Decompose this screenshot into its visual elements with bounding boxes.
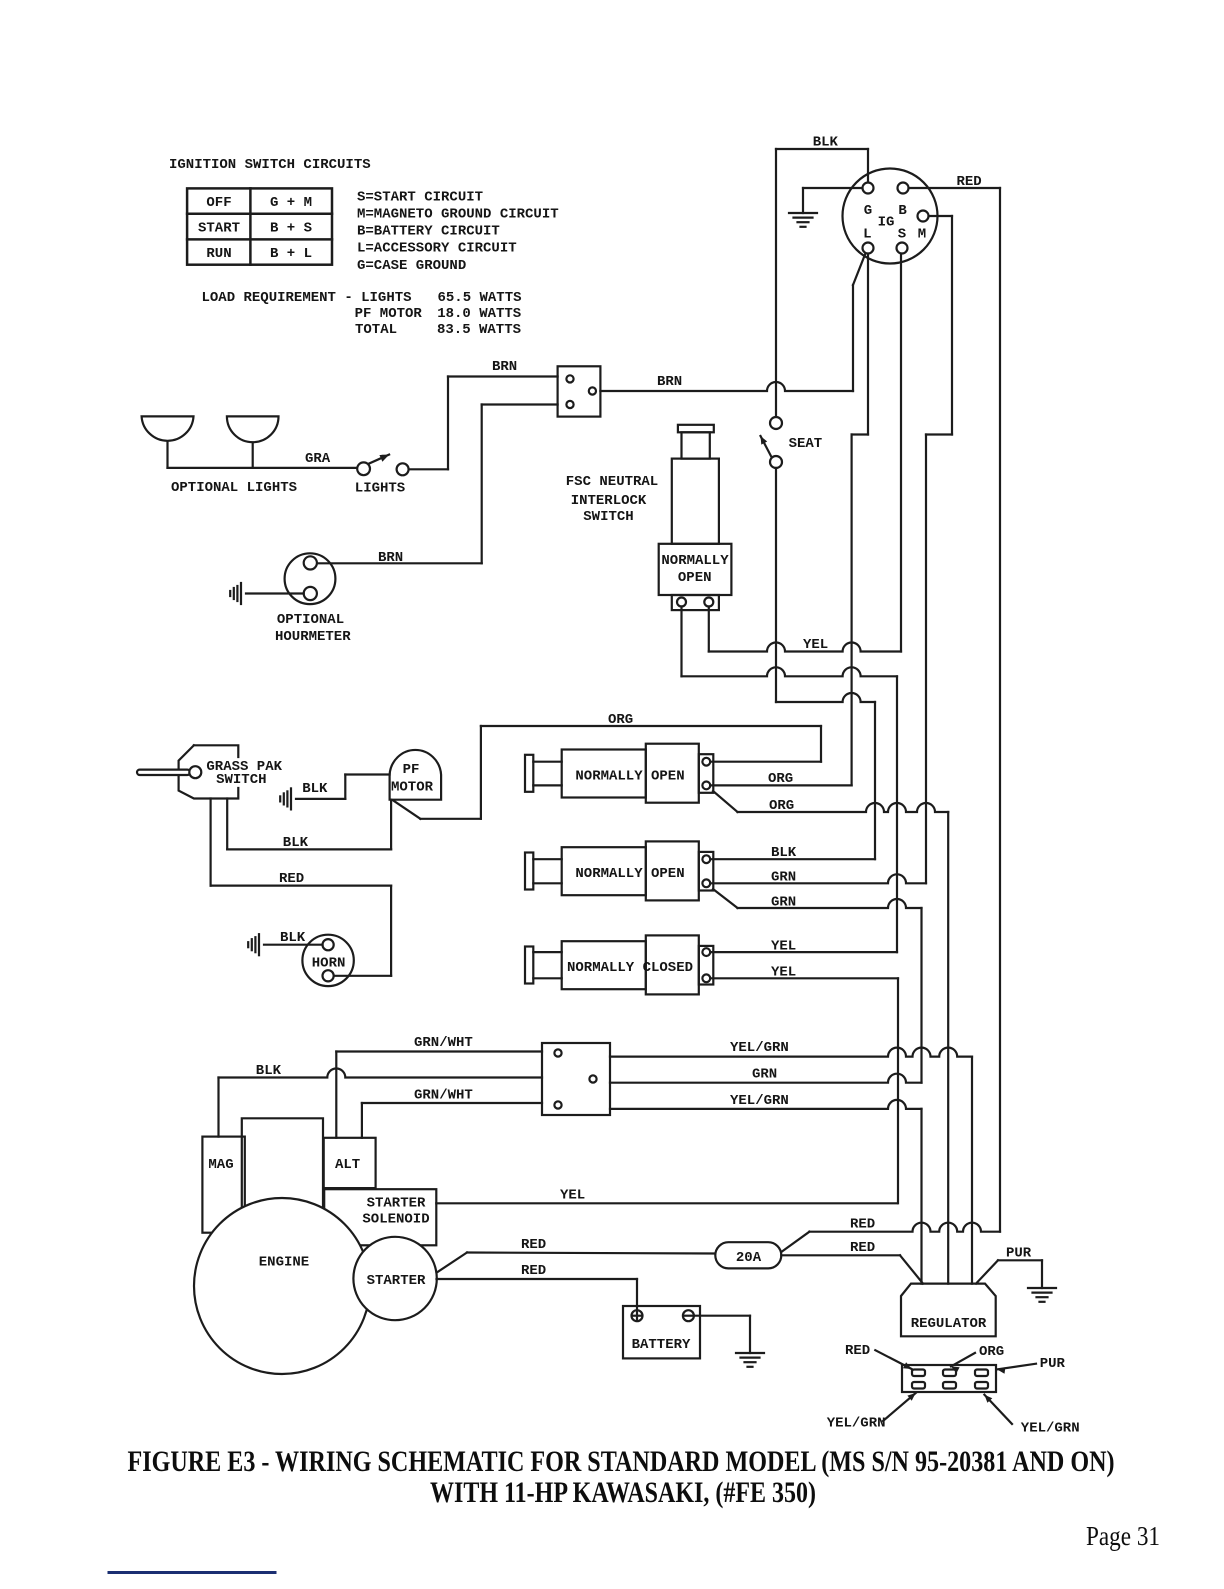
grass pak actuator lever: [137, 770, 190, 775]
switch: GRASS PAK SWITCH body: [194, 745, 238, 757]
svg-text:BRN: BRN: [492, 359, 517, 375]
grass pak pivot pin: [189, 766, 201, 778]
svg-text:RUN: RUN: [206, 246, 231, 262]
svg-text:GRN: GRN: [771, 870, 796, 886]
wire BLK: magneto to connector J2: [217, 1078, 219, 1137]
svg-text:ORG: ORG: [979, 1344, 1004, 1360]
ignition terminal L: [863, 243, 874, 254]
svg-text:PF MOTOR: PF MOTOR: [355, 306, 423, 322]
meter: optional hourmeter: [285, 553, 336, 604]
switch LIGHTS: [368, 455, 389, 464]
svg-text:ORG: ORG: [608, 712, 633, 728]
engine block: [242, 1118, 323, 1215]
svg-text:65.5 WATTS: 65.5 WATTS: [438, 290, 522, 306]
switch SW3 terminal pins: [702, 948, 710, 956]
ground: regulator PUR ground: [1028, 1287, 1056, 1289]
svg-text:RED: RED: [845, 1343, 870, 1359]
svg-text:RED: RED: [957, 174, 982, 190]
ignition terminal B: [898, 183, 909, 194]
switch SW1 terminal pins: [702, 758, 710, 766]
svg-text:PUR: PUR: [1040, 1356, 1066, 1372]
wire GRN/WHT: alternator 2nd to connector J2: [361, 1103, 363, 1138]
fuse 20A: [715, 1242, 781, 1268]
wire BLK: hourmeter to chassis ground: [246, 592, 304, 594]
switch SW3 pin wires: [533, 951, 561, 953]
wire YEL: SW3 top pin to FSC interlock line: [710, 951, 897, 953]
ignition terminal G: [863, 183, 874, 194]
svg-text:YEL: YEL: [803, 637, 828, 653]
svg-text:MOTOR: MOTOR: [391, 780, 434, 796]
svg-text:FIGURE E3 - WIRING SCHEMATIC F: FIGURE E3 - WIRING SCHEMATIC FOR STANDAR…: [128, 1445, 1115, 1478]
starter solenoid box: [324, 1189, 436, 1245]
wire YEL: SW3 lower pin to starter solenoid line: [710, 977, 898, 979]
wire RED: B terminal down right side to fuse: [909, 187, 1001, 189]
svg-text:SOLENOID: SOLENOID: [362, 1211, 429, 1227]
battery: [623, 1306, 700, 1358]
wire: connector to hourmeter: [482, 403, 558, 405]
wire: battery - to ground: [694, 1315, 750, 1317]
decorative blue rule: [109, 1571, 275, 1574]
wire RED: starter to fuse: [437, 1253, 467, 1273]
wire GRN: J2 to SW2 line: [610, 1074, 922, 1083]
wire: M terminal jog down: [929, 215, 953, 217]
wire BRN: lights switch up to connector: [409, 468, 448, 470]
wire BLK: horn to chassis ground: [264, 944, 323, 946]
wire YEL: FSC right pin to ignition S: [708, 607, 710, 652]
wire ORG: SW1 lower pin to L accessory line: [710, 784, 851, 786]
svg-text:BLK: BLK: [771, 845, 797, 861]
svg-text:YEL/GRN: YEL/GRN: [1021, 1421, 1080, 1437]
wire BLK: PF motor to chassis ground: [345, 773, 389, 775]
svg-text:INTERLOCK: INTERLOCK: [571, 493, 647, 509]
horn body: [302, 935, 353, 986]
svg-text:STARTER: STARTER: [367, 1195, 426, 1211]
battery - terminal: [683, 1310, 694, 1321]
ground: battery ground: [736, 1352, 764, 1354]
svg-text:G=CASE GROUND: G=CASE GROUND: [357, 258, 466, 274]
svg-text:GRN/WHT: GRN/WHT: [414, 1088, 473, 1104]
svg-text:IG: IG: [878, 215, 895, 231]
svg-text:M=MAGNETO GROUND CIRCUIT: M=MAGNETO GROUND CIRCUIT: [357, 207, 559, 223]
wire GRN/WHT: alternator to connector J2: [335, 1052, 337, 1138]
svg-text:BRN: BRN: [657, 374, 682, 390]
battery + terminal: [632, 1310, 643, 1321]
switch: FSC neutral interlock (plunger): [678, 425, 714, 433]
ignition table box: [187, 188, 332, 264]
svg-text:SEAT: SEAT: [789, 436, 823, 452]
svg-text:YEL/GRN: YEL/GRN: [730, 1093, 789, 1109]
svg-text:RED: RED: [279, 871, 304, 887]
ground: PF motor chassis ground: [290, 788, 292, 809]
svg-text:LIGHTS: LIGHTS: [355, 481, 405, 497]
ignition terminal M: [918, 211, 929, 222]
svg-text:YEL: YEL: [771, 939, 796, 955]
svg-text:SWITCH: SWITCH: [216, 772, 266, 788]
svg-text:GRN: GRN: [771, 895, 796, 911]
lamp: optional light 1: [142, 416, 194, 440]
wire BLK: grass pak to PF motor: [226, 799, 228, 850]
motor: PF MOTOR: [390, 750, 442, 800]
ground: horn chassis ground: [258, 934, 260, 955]
switch SW1 plug connector: [525, 755, 533, 792]
svg-text:BLK: BLK: [302, 781, 328, 797]
wire YEL: starter solenoid trigger: [436, 1202, 897, 1204]
svg-text:RED: RED: [521, 1237, 546, 1253]
wire BLK: ignition G terminal to seat-switch drop: [776, 148, 868, 150]
svg-text:PF: PF: [403, 762, 420, 778]
lamp: optional light 2: [227, 416, 279, 442]
regulator: [901, 1284, 996, 1337]
alternator ALT: [324, 1138, 376, 1188]
wire RED: grass pak to horn: [210, 799, 212, 886]
wire ORG: PF motor to switch SW1 top pin: [393, 800, 421, 819]
engine circle: [194, 1198, 370, 1374]
svg-text:BLK: BLK: [283, 835, 309, 851]
switch SW3 body: [562, 941, 646, 989]
op: ignition switch body IG: [843, 169, 938, 264]
wire GRN: SW2 to connector/regulator line: [713, 889, 738, 908]
svg-text:BLK: BLK: [280, 930, 306, 946]
svg-text:ORG: ORG: [769, 798, 794, 814]
svg-text:NORMALLY OPEN: NORMALLY OPEN: [575, 768, 684, 784]
svg-text:B + S: B + S: [270, 221, 312, 237]
svg-text:LOAD REQUIREMENT - LIGHTS: LOAD REQUIREMENT - LIGHTS: [202, 290, 412, 306]
wire RED: fuse to ignition B line: [781, 1232, 809, 1252]
svg-text:IGNITION SWITCH CIRCUITS: IGNITION SWITCH CIRCUITS: [169, 157, 371, 173]
svg-text:B=BATTERY CIRCUIT: B=BATTERY CIRCUIT: [357, 224, 500, 240]
svg-text:OPEN: OPEN: [678, 570, 712, 586]
svg-text:PUR: PUR: [1006, 1246, 1032, 1262]
wire YEL/GRN: J2 to regulator line 2: [610, 1100, 922, 1109]
svg-text:START: START: [198, 221, 240, 237]
svg-text:OPTIONAL: OPTIONAL: [277, 612, 344, 628]
svg-text:GRN: GRN: [752, 1067, 777, 1083]
svg-text:FSC NEUTRAL: FSC NEUTRAL: [566, 474, 658, 490]
svg-text:GRN/WHT: GRN/WHT: [414, 1035, 473, 1051]
svg-text:TOTAL: TOTAL: [355, 322, 397, 338]
ground: ignition case ground: [789, 212, 817, 214]
svg-text:NORMALLY: NORMALLY: [661, 553, 729, 569]
svg-text:NORMALLY OPEN: NORMALLY OPEN: [575, 866, 684, 882]
wire: S terminal down: [900, 254, 902, 652]
svg-text:BLK: BLK: [813, 135, 839, 151]
wire RED: starter to battery +: [437, 1278, 638, 1280]
svg-text:BRN: BRN: [378, 550, 403, 566]
svg-text:YEL: YEL: [560, 1188, 585, 1204]
switch SW2 pin wires: [533, 858, 561, 860]
svg-text:OPTIONAL LIGHTS: OPTIONAL LIGHTS: [171, 480, 297, 496]
connector J3 (regulator plug): [902, 1365, 996, 1392]
svg-text:YEL/GRN: YEL/GRN: [827, 1416, 886, 1432]
svg-text:83.5 WATTS: 83.5 WATTS: [437, 322, 521, 338]
wire: L terminal down jog: [867, 254, 869, 435]
svg-text:ORG: ORG: [768, 771, 793, 787]
switch SW1 body: [562, 750, 646, 798]
svg-text:STARTER: STARTER: [367, 1273, 426, 1289]
wire: FSC left pin down to NC-switch top pin: [680, 607, 682, 677]
switch SEAT: [761, 436, 773, 458]
svg-text:18.0 WATTS: 18.0 WATTS: [437, 306, 521, 322]
svg-text:WITH 11-HP KAWASAKI, (#FE 350): WITH 11-HP KAWASAKI, (#FE 350): [430, 1476, 816, 1509]
svg-text:RED: RED: [850, 1240, 875, 1256]
wire BRN: connector to L accessory line: [600, 382, 853, 391]
svg-text:BATTERY: BATTERY: [632, 1337, 691, 1353]
svg-text:S: S: [898, 227, 906, 243]
wire GRN: SW2 lower pin to magneto M line: [710, 874, 926, 883]
connector J1 (3-pin): [558, 366, 601, 416]
svg-text:Page 31: Page 31: [1086, 1521, 1160, 1551]
svg-text:G + M: G + M: [270, 195, 312, 211]
svg-text:ALT: ALT: [335, 1157, 360, 1173]
ignition terminal S: [897, 243, 908, 254]
svg-text:L: L: [863, 227, 871, 243]
svg-text:HORN: HORN: [312, 956, 346, 972]
svg-text:GRA: GRA: [305, 451, 331, 467]
svg-text:B: B: [898, 203, 907, 219]
svg-text:RED: RED: [521, 1263, 546, 1279]
starter motor circle: [353, 1237, 436, 1320]
switch SW2 body: [562, 847, 646, 895]
svg-text:B + L: B + L: [270, 246, 312, 262]
svg-text:YEL: YEL: [771, 965, 796, 981]
wire ORG: SW1 to regulator line: [713, 791, 738, 812]
svg-text:NORMALLY CLOSED: NORMALLY CLOSED: [567, 960, 693, 976]
magneto MAG: [202, 1137, 244, 1233]
wire: G terminal to case ground: [803, 187, 863, 189]
wire YEL/GRN: J2 to regulator: [610, 1048, 972, 1057]
svg-text:G: G: [864, 203, 872, 219]
svg-text:REGULATOR: REGULATOR: [911, 1316, 987, 1332]
svg-text:MAG: MAG: [208, 1157, 233, 1173]
wire: L terminal accessory branch to BRN: [853, 252, 866, 285]
svg-text:20A: 20A: [736, 1250, 762, 1266]
svg-text:ENGINE: ENGINE: [259, 1255, 309, 1271]
switch SW3 plug connector: [525, 947, 533, 984]
svg-text:RED: RED: [850, 1217, 875, 1233]
wire: seat switch down to BLK row: [775, 468, 777, 702]
svg-text:L=ACCESSORY CIRCUIT: L=ACCESSORY CIRCUIT: [357, 241, 517, 257]
svg-text:SWITCH: SWITCH: [583, 509, 633, 525]
connector J2 (3-pin): [542, 1043, 610, 1115]
svg-text:M: M: [918, 227, 926, 243]
svg-text:OFF: OFF: [206, 195, 231, 211]
wire PUR: regulator to ground: [976, 1260, 998, 1283]
switch SW2 terminal pins: [702, 855, 710, 863]
wire GRA: lamps to lights switch: [168, 467, 358, 469]
svg-text:HOURMETER: HOURMETER: [275, 629, 351, 645]
switch SW2 plug connector: [525, 853, 533, 890]
wire BLK: SW2 top pin to seat switch line: [710, 858, 875, 860]
ground: hourmeter chassis ground: [240, 583, 242, 604]
wire RED: fuse to regulator: [781, 1254, 900, 1256]
svg-text:S=START CIRCUIT: S=START CIRCUIT: [357, 190, 483, 206]
FSC terminal pins: [677, 598, 686, 607]
switch SW1 pin wires: [533, 761, 561, 763]
svg-text:BLK: BLK: [256, 1063, 282, 1079]
svg-text:YEL/GRN: YEL/GRN: [730, 1040, 789, 1056]
